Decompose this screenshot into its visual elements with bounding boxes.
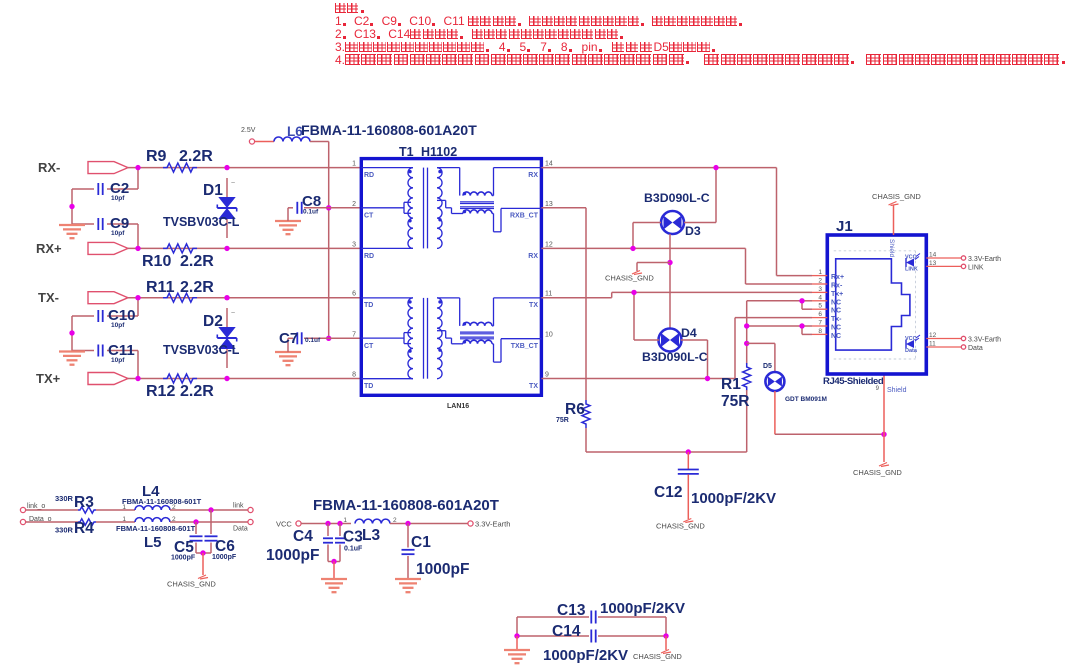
svg-text:FBMA-11-160808-601T: FBMA-11-160808-601T	[122, 497, 202, 506]
svg-text:1: 1	[122, 516, 126, 523]
svg-text:TD: TD	[364, 383, 373, 390]
svg-text:D1: D1	[203, 182, 223, 199]
svg-text:VCC: VCC	[905, 255, 917, 261]
svg-text:C4: C4	[293, 528, 313, 545]
svg-text:2.2R: 2.2R	[180, 383, 214, 400]
svg-text:C5: C5	[174, 539, 194, 556]
svg-text:7: 7	[818, 320, 822, 327]
svg-text:0.1uF: 0.1uF	[344, 546, 363, 553]
svg-text:L5: L5	[144, 534, 162, 551]
svg-text:1000pF: 1000pF	[171, 555, 196, 562]
svg-text:TX+: TX+	[36, 371, 61, 386]
svg-text:14: 14	[929, 252, 937, 259]
svg-text:R4: R4	[74, 520, 94, 537]
svg-text:J1: J1	[836, 218, 853, 235]
svg-text:12: 12	[929, 332, 937, 339]
svg-text:Tx+: Tx+	[831, 291, 843, 298]
svg-text:1000pF: 1000pF	[266, 547, 319, 564]
svg-text:3.3V-Earth: 3.3V-Earth	[475, 520, 510, 529]
svg-text:1000pF: 1000pF	[212, 554, 237, 561]
svg-text:~: ~	[231, 310, 235, 317]
svg-text:0.1uf: 0.1uf	[305, 337, 321, 344]
svg-text:T1: T1	[399, 145, 414, 159]
svg-text:9: 9	[545, 372, 549, 379]
svg-text:13: 13	[929, 260, 937, 267]
svg-text:C7: C7	[279, 330, 298, 347]
svg-text:10: 10	[545, 331, 553, 338]
svg-text:2.2R: 2.2R	[180, 253, 214, 270]
svg-text:1: 1	[343, 517, 347, 524]
svg-text:3: 3	[818, 286, 822, 293]
svg-text:10pf: 10pf	[111, 230, 125, 237]
svg-text:Shield: Shield	[887, 387, 907, 394]
svg-text:RX-: RX-	[38, 160, 60, 175]
svg-text:R10: R10	[142, 253, 171, 270]
svg-text:14: 14	[545, 161, 553, 168]
svg-text:TX-: TX-	[38, 290, 59, 305]
svg-text:5: 5	[818, 303, 822, 310]
svg-text:2.2R: 2.2R	[180, 279, 214, 296]
svg-text:CT: CT	[364, 343, 374, 350]
svg-text:11: 11	[929, 341, 936, 348]
svg-text:12: 12	[545, 241, 553, 248]
svg-text:NC: NC	[831, 325, 841, 332]
svg-text:2: 2	[352, 201, 356, 208]
svg-text:1000pF/2KV: 1000pF/2KV	[600, 600, 685, 617]
svg-text:75R: 75R	[556, 417, 569, 424]
svg-text:CHASIS_GND: CHASIS_GND	[853, 468, 902, 477]
svg-text:link: link	[233, 503, 244, 510]
svg-text:TX: TX	[529, 302, 538, 309]
svg-text:330R: 330R	[55, 526, 74, 535]
svg-text:4: 4	[818, 294, 822, 301]
svg-text:B3D090L-C: B3D090L-C	[642, 350, 708, 364]
svg-text:D4: D4	[681, 326, 697, 340]
svg-text:7: 7	[352, 331, 356, 338]
svg-text:NC: NC	[831, 333, 841, 340]
svg-text:CT: CT	[364, 212, 374, 219]
svg-text:11: 11	[545, 291, 552, 298]
svg-text:10pf: 10pf	[111, 195, 125, 202]
svg-text:1000pF/2KV: 1000pF/2KV	[543, 647, 628, 664]
svg-text:10pf: 10pf	[111, 357, 125, 364]
svg-text:CHASIS_GND: CHASIS_GND	[872, 192, 921, 201]
svg-text:R12: R12	[146, 383, 175, 400]
svg-text:RXB_CT: RXB_CT	[510, 212, 539, 219]
svg-text:D2: D2	[203, 313, 223, 330]
svg-text:6: 6	[352, 291, 356, 298]
svg-text:RD: RD	[364, 253, 374, 260]
svg-text:Tx-: Tx-	[831, 316, 842, 323]
svg-text:8: 8	[818, 328, 822, 335]
svg-text:D5: D5	[763, 363, 772, 370]
svg-text:1000pF: 1000pF	[416, 561, 469, 578]
svg-text:C14: C14	[552, 623, 581, 640]
svg-text:R1: R1	[721, 376, 741, 393]
svg-text:CHASIS_GND: CHASIS_GND	[633, 652, 682, 661]
svg-text:Shield: Shield	[888, 239, 895, 257]
svg-text:C1: C1	[411, 534, 431, 551]
svg-text:FBMA-11-160808-601T: FBMA-11-160808-601T	[116, 524, 196, 533]
svg-text:RD: RD	[364, 172, 374, 179]
svg-text:CHASIS_GND: CHASIS_GND	[605, 274, 654, 283]
svg-text:R3: R3	[74, 494, 94, 511]
svg-text:13: 13	[545, 201, 553, 208]
svg-text:B3D090L-C: B3D090L-C	[644, 191, 710, 205]
svg-text:8: 8	[352, 372, 356, 379]
svg-text:3: 3	[352, 241, 356, 248]
svg-text:2.5V: 2.5V	[241, 127, 256, 134]
svg-text:TXB_CT: TXB_CT	[511, 343, 539, 350]
svg-text:GDT BM091M: GDT BM091M	[785, 396, 827, 403]
svg-text:Data: Data	[968, 345, 983, 352]
svg-text:TVSBV03C-L: TVSBV03C-L	[163, 215, 240, 229]
svg-text:1: 1	[818, 269, 822, 276]
svg-text:330R: 330R	[55, 494, 74, 503]
svg-text:R9: R9	[146, 148, 167, 165]
svg-text:Rx+: Rx+	[831, 274, 844, 281]
svg-text:TVSBV03C-L: TVSBV03C-L	[163, 343, 240, 357]
svg-text:VCC: VCC	[905, 336, 917, 342]
svg-text:C8: C8	[302, 193, 321, 210]
svg-text:CHASIS_GND: CHASIS_GND	[167, 580, 216, 589]
svg-text:RX: RX	[528, 172, 538, 179]
svg-text:NC: NC	[831, 299, 841, 306]
svg-text:Data: Data	[905, 348, 918, 354]
svg-text:R11: R11	[146, 279, 175, 296]
svg-text:FBMA-11-160808-601A20T: FBMA-11-160808-601A20T	[301, 123, 477, 139]
svg-text:R6: R6	[565, 401, 585, 418]
svg-text:FBMA-11-160808-601A20T: FBMA-11-160808-601A20T	[313, 497, 499, 514]
svg-text:C12: C12	[654, 484, 682, 501]
svg-text:10pf: 10pf	[111, 322, 125, 329]
svg-text:H1102: H1102	[421, 145, 457, 159]
svg-text:1: 1	[352, 161, 356, 168]
svg-text:NC: NC	[831, 308, 841, 315]
svg-text:LAN16: LAN16	[447, 403, 469, 410]
svg-text:3.3V-Earth: 3.3V-Earth	[968, 337, 1001, 344]
svg-text:link_o: link_o	[27, 503, 45, 510]
svg-text:RX+: RX+	[36, 241, 62, 256]
svg-text:0.1uf: 0.1uf	[303, 209, 319, 216]
svg-text:TX: TX	[529, 383, 538, 390]
svg-text:C13: C13	[557, 602, 586, 619]
svg-text:TD: TD	[364, 302, 373, 309]
svg-text:C3: C3	[343, 529, 363, 546]
svg-text:RX: RX	[528, 253, 538, 260]
svg-text:C6: C6	[215, 538, 235, 555]
svg-text:~: ~	[231, 180, 235, 187]
svg-text:75R: 75R	[721, 393, 749, 410]
svg-text:1000pF/2KV: 1000pF/2KV	[691, 490, 776, 507]
svg-text:LINK: LINK	[905, 267, 918, 273]
svg-text:Rx-: Rx-	[831, 283, 843, 290]
svg-text:3.3V-Earth: 3.3V-Earth	[968, 256, 1001, 263]
svg-text:L3: L3	[362, 527, 380, 544]
svg-text:2: 2	[818, 278, 822, 285]
svg-text:VCC: VCC	[276, 520, 292, 529]
svg-text:LINK: LINK	[968, 264, 984, 271]
svg-text:Data: Data	[233, 526, 248, 533]
svg-text:2.2R: 2.2R	[179, 148, 213, 165]
svg-text:6: 6	[818, 311, 822, 318]
svg-text:CHASIS_GND: CHASIS_GND	[656, 522, 705, 531]
svg-text:D3: D3	[685, 224, 701, 238]
